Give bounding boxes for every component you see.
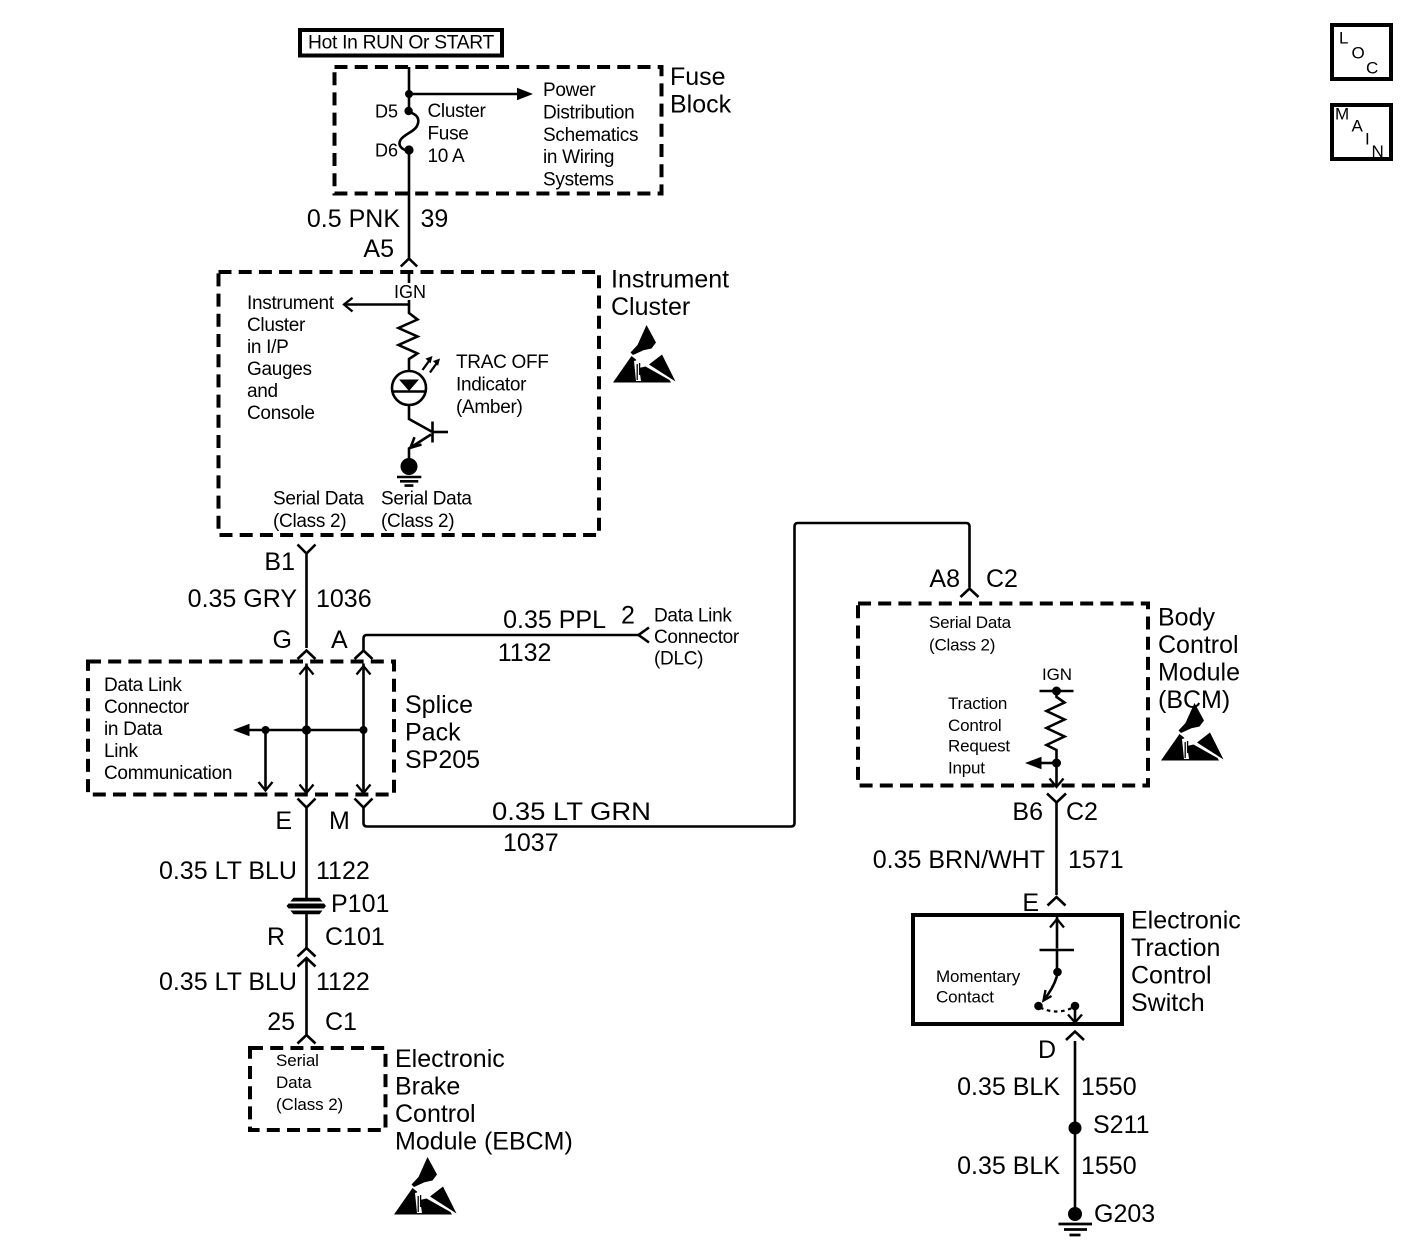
switch common contact bar [1040,949,1075,952]
node branch to power distribution [405,90,413,98]
svg-text:TRAC OFF: TRAC OFF [456,352,549,373]
svg-text:A8: A8 [929,565,960,593]
pin B1 [264,545,315,577]
ESD symbol BCM [1161,703,1224,761]
pin A8 C2 [929,565,1018,597]
svg-text:Indicator: Indicator [456,374,527,395]
arrow to instrument cluster text [344,298,409,312]
LED TRAC OFF indicator [392,371,426,405]
svg-text:Serial Data: Serial Data [381,489,472,510]
connector C101 [267,923,385,967]
grommet P101 [287,890,390,918]
switch pivot node [1053,968,1062,977]
svg-text:M: M [1335,105,1349,124]
splice vertical A-M [357,664,371,794]
svg-text:Brake: Brake [395,1073,460,1101]
wire label 0.35 GRY 1036 [188,585,372,613]
wire switch input arrow [1050,917,1064,949]
svg-text:A5: A5 [363,235,394,263]
svg-text:1550: 1550 [1081,1073,1137,1101]
svg-text:0.35 GRY: 0.35 GRY [188,585,298,613]
switch contact node left [1034,1002,1043,1011]
svg-text:Module: Module [1158,659,1240,687]
svg-text:25: 25 [267,1008,295,1036]
svg-text:0.35 PPL: 0.35 PPL [503,606,606,634]
svg-text:1122: 1122 [316,857,370,885]
svg-text:in Wiring: in Wiring [543,147,614,168]
resistor (indicator dropping resistor) [399,305,418,372]
svg-text:E: E [275,807,292,835]
junction node below resistor [1052,759,1061,768]
pin B6 C2 [1012,794,1098,827]
MAIN box [1332,105,1391,162]
svg-text:(DLC): (DLC) [654,649,703,670]
splice pack box [88,662,394,795]
svg-text:G203: G203 [1094,1200,1155,1228]
svg-text:Input: Input [948,759,985,778]
LOC box [1332,25,1391,79]
BCM box [858,604,1148,786]
svg-text:Control: Control [948,716,1001,735]
svg-text:D5: D5 [375,102,398,122]
node IGN BCM [1040,665,1074,696]
svg-text:IGN: IGN [394,282,426,302]
svg-text:(Class 2): (Class 2) [273,511,346,532]
svg-text:Splice: Splice [405,691,473,719]
label Fuse Block [670,63,732,119]
svg-text:A: A [1352,117,1364,136]
svg-text:C: C [1366,59,1378,78]
resistor BCM pull-up [1047,691,1065,763]
switch contact node output [1071,1002,1080,1011]
pin D6 [404,145,413,154]
junction dot right [360,726,368,734]
ESD symbol instrument cluster [613,325,676,383]
splice stub down [259,730,273,791]
svg-text:Instrument: Instrument [247,293,335,314]
svg-text:Gauges: Gauges [247,359,312,380]
note Traction Control Request Input [948,694,1010,778]
pin D5 [404,107,412,115]
hot feed label box [300,30,502,56]
svg-text:Serial: Serial [276,1051,319,1070]
pin A5 [363,235,417,267]
svg-text:Switch: Switch [1131,989,1205,1017]
svg-text:E: E [1022,889,1039,917]
svg-text:1037: 1037 [503,829,559,857]
svg-text:Body: Body [1158,604,1215,632]
label Splice Pack SP205 [405,691,480,774]
svg-text:Systems: Systems [543,170,614,191]
svg-text:Traction: Traction [948,694,1007,713]
pin E switch [1022,889,1065,917]
note Momentary Contact [936,967,1021,1007]
svg-text:A: A [331,626,348,654]
DLC connector symbol [639,628,650,643]
svg-text:0.35 LT GRN: 0.35 LT GRN [492,798,651,826]
wire label 0.35 LT BLU 1122 [159,968,370,996]
pin G [273,626,316,659]
svg-text:Power: Power [543,80,596,101]
momentary switch arm [1044,976,1058,1001]
svg-text:D6: D6 [375,141,398,161]
svg-text:0.35 BLK: 0.35 BLK [957,1152,1060,1180]
svg-text:Data Link: Data Link [104,675,182,696]
svg-text:P101: P101 [331,890,389,918]
svg-text:Fuse: Fuse [428,123,469,144]
svg-text:Serial Data: Serial Data [929,613,1012,632]
junction dot left [262,726,270,734]
pin A [331,626,373,659]
svg-text:Communication: Communication [104,763,232,784]
svg-text:Pack: Pack [405,719,461,747]
EBCM box [250,1048,386,1130]
svg-text:(Amber): (Amber) [456,397,523,418]
label Instrument Cluster [611,266,729,322]
junction dot center [302,725,311,734]
power distribution note [543,80,638,191]
svg-text:L: L [1339,29,1348,48]
svg-text:Control: Control [1158,631,1239,659]
svg-text:1036: 1036 [316,585,372,613]
label switch [1131,907,1241,1017]
svg-text:C2: C2 [986,565,1018,593]
wire B1 to G [305,554,308,649]
svg-text:1571: 1571 [1068,846,1124,874]
svg-text:Connector: Connector [104,697,190,718]
svg-text:S211: S211 [1093,1111,1150,1139]
svg-text:0.5 PNK: 0.5 PNK [307,205,400,233]
svg-text:39: 39 [421,205,449,233]
instrument cluster box [219,272,600,535]
svg-text:Control: Control [395,1100,476,1128]
wire B6 to switch [1055,803,1058,896]
svg-text:0.35 LT BLU: 0.35 LT BLU [159,857,297,885]
svg-text:O: O [1352,44,1365,63]
label TRAC OFF Indicator [456,352,549,418]
wire down to B6 arrow [1050,763,1064,787]
svg-text:Momentary: Momentary [936,967,1021,986]
wire label 0.35 BRN/WHT 1571 [873,846,1124,874]
svg-text:Cluster: Cluster [247,315,306,336]
wire label 0.35 LT GRN 1037 [492,798,651,857]
svg-text:Contact: Contact [936,988,994,1007]
svg-text:Data: Data [276,1073,312,1092]
fuse element (Cluster Fuse 10 A) [399,112,418,151]
svg-text:1550: 1550 [1081,1152,1137,1180]
ESD symbol EBCM [394,1157,457,1215]
svg-text:10 A: 10 A [428,146,465,167]
svg-text:Instrument: Instrument [611,266,729,294]
svg-text:B6: B6 [1012,798,1043,826]
wire E to P101 [305,808,308,899]
svg-text:C1: C1 [325,1008,357,1036]
svg-text:2: 2 [621,601,635,629]
wire label 0.5 PNK 39 [307,205,448,233]
splice S211 [1069,1111,1150,1139]
svg-text:Electronic: Electronic [1131,907,1241,935]
svg-text:D: D [1038,1036,1056,1064]
wire label 0.35 LT BLU 1122 [159,857,370,885]
svg-text:(Class 2): (Class 2) [929,636,995,655]
svg-text:Data Link: Data Link [654,605,732,626]
svg-text:Request: Request [948,737,1010,756]
svg-text:C101: C101 [325,923,385,951]
svg-text:Link: Link [104,741,138,762]
wire label 0.35 PPL 2 1132 [498,601,635,667]
svg-text:I: I [1365,130,1370,149]
fuse value label [428,101,487,167]
wire switch output arrow [1068,1009,1082,1023]
svg-text:Connector: Connector [654,627,740,648]
pin D [1038,1032,1084,1065]
note Data Link Connector in Data Link Communication [104,675,232,784]
svg-text:(Class 2): (Class 2) [276,1095,343,1114]
svg-text:SP205: SP205 [405,746,480,774]
svg-text:R: R [267,923,285,951]
svg-text:and: and [247,381,278,402]
wire label 0.35 BLK 1550 (2) [957,1152,1136,1180]
svg-text:N: N [1372,142,1384,161]
wire IGN stub [408,273,411,305]
transistor driver [409,405,448,459]
svg-text:in I/P: in I/P [247,337,289,358]
ground G203 [1059,1200,1156,1235]
svg-text:Cluster: Cluster [611,293,690,321]
wire P101 to C101 [305,914,308,949]
note: instrument cluster in I/P [247,293,335,424]
LED light arrows [423,356,441,373]
note Data Link Connector (DLC) [654,605,740,669]
svg-text:IGN: IGN [1042,665,1072,684]
pin 25 C1 [267,1008,357,1044]
serial data note BCM [929,613,1012,655]
svg-text:Hot In RUN Or START: Hot In RUN Or START [308,33,495,54]
wire arrow to power distribution [409,88,533,100]
svg-text:Distribution: Distribution [543,102,634,123]
svg-text:Control: Control [1131,962,1212,990]
svg-text:0.35 BLK: 0.35 BLK [957,1073,1060,1101]
fuse block box [335,67,662,194]
switch box [913,915,1122,1024]
serial data note [276,1051,343,1114]
wire from fuse block top to A5 [408,67,411,258]
svg-text:(Class 2): (Class 2) [381,511,454,532]
wire bar to pivot [1056,950,1059,969]
svg-text:Traction: Traction [1131,934,1220,962]
svg-text:B1: B1 [264,548,295,576]
wire C101 to C1 [305,958,308,1035]
svg-text:Electronic: Electronic [395,1045,505,1073]
svg-text:C2: C2 [1066,798,1098,826]
ground (instrument cluster) [397,458,421,486]
svg-text:Serial Data: Serial Data [273,489,364,510]
svg-text:1122: 1122 [316,968,370,996]
wire label 0.35 BLK 1550 [957,1073,1136,1101]
svg-text:Fuse: Fuse [670,63,726,91]
svg-text:in Data: in Data [104,719,163,740]
svg-text:Console: Console [247,403,315,424]
svg-text:Block: Block [670,91,732,119]
splice bus [233,724,364,737]
svg-text:0.35 LT BLU: 0.35 LT BLU [159,968,297,996]
splice vertical G-E [300,664,314,794]
svg-text:Module (EBCM): Module (EBCM) [395,1128,573,1156]
svg-text:Cluster: Cluster [428,101,487,122]
svg-text:Schematics: Schematics [543,125,638,146]
svg-text:1132: 1132 [498,639,552,667]
arrow to request input [1025,757,1057,770]
serial data labels [273,489,364,533]
wire D to ground [1074,1041,1077,1210]
svg-text:0.35 BRN/WHT: 0.35 BRN/WHT [873,846,1045,874]
pin M [329,799,373,836]
label BCM [1158,604,1240,715]
pin E [275,799,315,836]
wire A to DLC [364,635,639,651]
svg-text:G: G [273,626,292,654]
label EBCM [395,1045,573,1156]
switch travel arc [1040,1008,1073,1012]
wire M to BCM A8 [364,523,970,827]
svg-text:M: M [329,807,350,835]
